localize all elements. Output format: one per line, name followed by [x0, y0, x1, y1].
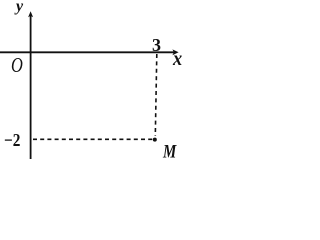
x-axis — [0, 49, 179, 55]
label 3 (x-coordinate tick value) — [152, 36, 161, 54]
label M (point name) — [163, 142, 176, 161]
dashed segment from x-axis to point M (x = 3) — [155, 54, 157, 136]
label -2 (y-coordinate tick value) — [4, 131, 20, 149]
point M dot — [153, 138, 157, 142]
label x (x-axis name) — [173, 49, 182, 69]
y-axis — [28, 11, 33, 159]
label O (origin) — [11, 55, 23, 76]
dashed segment from y-axis to point M (y = -2) — [33, 138, 154, 140]
label y (y-axis name) — [16, 0, 23, 15]
